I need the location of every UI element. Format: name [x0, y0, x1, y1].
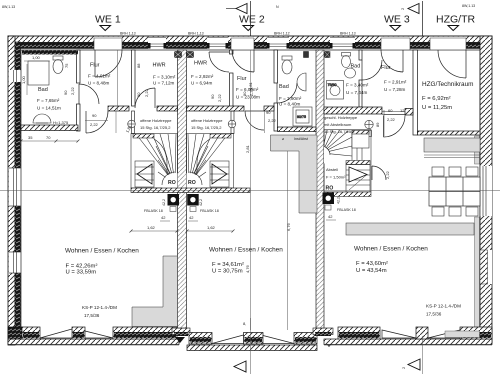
wall Bad1/Flur1: [77, 50, 81, 131]
door Bad3: [362, 60, 382, 80]
svg-text:89: 89: [375, 122, 380, 127]
Bad2 toilet: [282, 56, 292, 74]
svg-text:60: 60: [388, 108, 393, 113]
svg-text:42: 42: [328, 214, 333, 219]
svg-text:Wohnen / Essen / Kochen: Wohnen / Essen / Kochen: [65, 248, 139, 255]
svg-text:U = 6,94m: U = 6,94m: [191, 81, 212, 86]
Bad2 sink: [297, 73, 306, 91]
Bad3 sink: [345, 68, 356, 78]
svg-text:8W,1.13: 8W,1.13: [462, 4, 475, 8]
Bad3 toilet: [342, 53, 351, 68]
WE3 hall wall right block: [405, 109, 413, 116]
svg-text:90: 90: [136, 92, 141, 97]
window HWR1: [148, 37, 166, 50]
svg-text:WE 3: WE 3: [384, 14, 410, 26]
svg-text:U = 8,40m: U = 8,40m: [279, 102, 300, 107]
column WE1: [128, 120, 136, 128]
Bad2 bottom wall: [278, 127, 317, 132]
svg-text:75: 75: [64, 63, 69, 68]
svg-text:2,22: 2,22: [90, 122, 99, 127]
label WE 3: [384, 14, 410, 31]
svg-text:N: N: [276, 5, 279, 9]
svg-text:1,62: 1,62: [207, 225, 216, 230]
svg-text:F = 34,61m²: F = 34,61m²: [212, 262, 244, 268]
svg-text:42: 42: [161, 215, 166, 220]
door Flur3 living: [384, 116, 406, 138]
horizontal chain line: [0, 190, 500, 192]
svg-text:1,81: 1,81: [248, 81, 253, 90]
window Bad WE2: [267, 37, 289, 50]
svg-text:F = 3,40m²: F = 3,40m²: [346, 83, 369, 88]
WE3 counter top: [424, 138, 480, 152]
svg-text:2,22: 2,22: [385, 170, 390, 179]
Bad1 sink: [33, 114, 51, 123]
WE1 kitchen L: [132, 256, 178, 327]
svg-text:U = 8,48m: U = 8,48m: [88, 81, 109, 86]
svg-text:U = 43,54m: U = 43,54m: [356, 268, 387, 274]
Bad1 shower: [28, 61, 49, 85]
wall Flur3/HZG: [413, 50, 418, 135]
svg-text:12: 12: [400, 108, 405, 113]
svg-text:8,: 8,: [243, 321, 246, 326]
svg-text:17,5/36: 17,5/36: [426, 312, 442, 317]
svg-text:F = 2,92m²: F = 2,92m²: [191, 74, 214, 79]
washer Bad2: [304, 52, 309, 58]
svg-text:1,62: 1,62: [147, 225, 156, 230]
svg-text:KS-P 12-1.4-/DM: KS-P 12-1.4-/DM: [82, 305, 117, 310]
wall Bad3/Flur3: [359, 50, 362, 107]
svg-text:HZG/TR: HZG/TR: [436, 14, 475, 26]
svg-text:BRH 1,13: BRH 1,13: [340, 32, 356, 36]
svg-text:Flur: Flur: [237, 76, 247, 82]
door WE1 living: [86, 111, 108, 133]
washer HWR1: [175, 52, 182, 58]
hall wall WE2 segment: [187, 106, 245, 111]
svg-text:Abstell: Abstell: [326, 167, 338, 172]
hall wall HWR1 segment: [157, 106, 178, 111]
Bad2 shower: [293, 107, 312, 126]
WE3 dining chairs bottom: [432, 207, 478, 216]
svg-text:BRH 1,13: BRH 1,13: [188, 32, 204, 36]
column WE3 hall: [365, 120, 373, 136]
wall stub below column WE2: [231, 111, 234, 134]
stair WE3: [312, 130, 371, 197]
svg-text:Bad: Bad: [38, 87, 48, 93]
svg-text:U = 11,25m: U = 11,25m: [422, 105, 452, 111]
svg-text:U = 7,28m: U = 7,28m: [384, 87, 405, 92]
HZG bottom wall: [418, 131, 481, 135]
door Abstell WE3: [372, 166, 386, 180]
svg-text:90: 90: [63, 90, 68, 95]
Bad3 shower: [327, 81, 344, 100]
svg-text:8W,1.13: 8W,1.13: [2, 5, 15, 9]
svg-text:U = 7,44m: U = 7,44m: [346, 90, 367, 95]
svg-text:4,76: 4,76: [245, 264, 250, 273]
svg-text:F = 7,65m²: F = 7,65m²: [37, 98, 60, 103]
svg-text:FBLASK 18: FBLASK 18: [200, 209, 219, 213]
svg-text:BRH 1,13: BRH 1,13: [120, 32, 136, 36]
svg-text:90/75: 90/75: [297, 115, 306, 119]
svg-text:BRH 1,12: BRH 1,12: [274, 32, 290, 36]
svg-text:2,22: 2,22: [70, 86, 75, 95]
Bad1 bottom wall: [21, 125, 78, 131]
party threshold 2: [313, 328, 334, 347]
svg-text:1,00: 1,00: [32, 55, 41, 60]
svg-text:6,76: 6,76: [286, 222, 291, 231]
svg-text:RO: RO: [326, 186, 334, 192]
Bad1 toilet: [53, 56, 63, 74]
svg-text:U = 30,75m: U = 30,75m: [212, 269, 243, 275]
svg-text:Wohnen / Essen / Kochen: Wohnen / Essen / Kochen: [354, 246, 428, 253]
column WE2: [228, 120, 236, 128]
WE3 counter long: [346, 223, 474, 235]
WE3 dining table: [429, 177, 480, 206]
svg-text:RO: RO: [168, 180, 176, 186]
svg-text:FBLASK 18: FBLASK 18: [144, 209, 163, 213]
svg-text:RO: RO: [188, 180, 196, 186]
svg-text:U = 7,12m: U = 7,12m: [153, 81, 174, 86]
gray strip along bottom right: [445, 331, 480, 338]
door HWR2: [209, 52, 229, 72]
stair WE2: [176, 134, 234, 200]
svg-text:35: 35: [28, 135, 33, 140]
label HZG/TR: [436, 14, 475, 31]
section bottom markers: [234, 321, 420, 372]
svg-text:2,22: 2,22: [144, 88, 149, 97]
section marker 2 top: [400, 1, 423, 36]
dim ticks: [20, 140, 235, 233]
stair landing strip: [131, 188, 250, 193]
top wall outer hatch band: [8, 36, 492, 43]
label WE 1: [95, 14, 121, 31]
svg-text:geschl. Holztreppe: geschl. Holztreppe: [324, 115, 358, 120]
svg-text:WE 1: WE 1: [95, 14, 121, 26]
chimney block WE2: [187, 194, 199, 212]
door WE2 living: [245, 111, 264, 130]
svg-text:HWR: HWR: [153, 63, 166, 69]
svg-text:Flur: Flur: [381, 65, 391, 71]
chimney block WE1: [168, 194, 180, 212]
svg-text:U = 33,59m: U = 33,59m: [66, 270, 97, 276]
svg-text:90: 90: [266, 110, 271, 115]
svg-text:KS-P 12-1.4-/DM: KS-P 12-1.4-/DM: [426, 304, 461, 309]
chimney block WE3: [323, 193, 335, 211]
svg-text:F = 3,10m²: F = 3,10m²: [153, 75, 176, 80]
label WE 2: [239, 14, 265, 31]
svg-text:F = 2,91m²: F = 2,91m²: [384, 80, 407, 85]
svg-text:42,2: 42,2: [162, 199, 166, 206]
svg-text:F = 4,01m²: F = 4,01m²: [88, 74, 111, 79]
door WE2 entry: [232, 50, 254, 72]
svg-text:Bad: Bad: [351, 64, 361, 70]
svg-text:88: 88: [136, 63, 141, 68]
svg-text:15 Stg. 16,7/25,2: 15 Stg. 16,7/25,2: [140, 125, 171, 130]
svg-text:42,2: 42,2: [199, 199, 203, 206]
party threshold 1: [172, 328, 190, 343]
svg-text:F = 1,50m²: F = 1,50m²: [326, 175, 346, 180]
BRH labels: [120, 32, 356, 36]
door lintel lines: [94, 37, 466, 50]
wall stub below column WE1: [132, 111, 135, 134]
wall HWR2/Flur2: [230, 50, 234, 107]
svg-text:1,00: 1,00: [21, 75, 26, 84]
top wall dark core segments: [8, 43, 492, 49]
WE3 hall door lintel: [382, 112, 405, 115]
door Bad1: [79, 84, 99, 104]
Abstell: [325, 164, 345, 180]
door Bad2: [277, 83, 297, 103]
section marker 8 top: [226, 1, 251, 36]
svg-text:F = 43,60m²: F = 43,60m²: [356, 261, 388, 267]
window Bad WE3: [330, 37, 355, 50]
washer HWR2: [187, 52, 194, 58]
door WE3 entry: [381, 50, 403, 72]
svg-text:42,2: 42,2: [337, 197, 341, 204]
svg-text:2,22: 2,22: [387, 117, 396, 122]
hall wall WE1 segment: [108, 106, 129, 111]
svg-text:FBLASK 18: FBLASK 18: [337, 208, 356, 212]
door HZG entry: [438, 50, 466, 78]
washer Bad3: [325, 52, 331, 58]
svg-text:75/90: 75/90: [328, 83, 337, 87]
svg-text:U = 14,51m: U = 14,51m: [37, 106, 61, 111]
svg-text:Inst/Abst: Inst/Abst: [294, 137, 308, 141]
door HWR1: [135, 88, 155, 108]
svg-text:2,81: 2,81: [245, 144, 250, 153]
door WE1 entry: [95, 50, 122, 77]
Bad1 inner band: [22, 51, 78, 55]
svg-text:Wohnen / Essen / Kochen: Wohnen / Essen / Kochen: [209, 247, 283, 254]
svg-text:H=1,375: H=1,375: [53, 120, 69, 125]
svg-text:F = 3,90m²: F = 3,90m²: [279, 96, 302, 101]
svg-text:90: 90: [92, 113, 97, 118]
svg-text:HZG/Technikraum: HZG/Technikraum: [422, 81, 474, 88]
svg-text:90: 90: [242, 91, 247, 96]
wall Flur1/HWR1: [132, 50, 136, 106]
svg-text:42: 42: [189, 215, 194, 220]
WE2 shaft L: [271, 135, 318, 213]
hall wall WE2 right segment: [264, 106, 274, 111]
svg-text:HWR: HWR: [194, 61, 207, 67]
WE3 dining chairs top: [432, 167, 478, 176]
svg-text:2,22: 2,22: [217, 93, 222, 102]
svg-text:offene Holztreppe: offene Holztreppe: [191, 118, 223, 123]
svg-text:Bad: Bad: [279, 84, 289, 90]
svg-text:Flur: Flur: [90, 63, 100, 69]
svg-text:15 Stg. 16,7/25,2: 15 Stg. 16,7/25,2: [324, 129, 355, 134]
svg-text:17,5/36: 17,5/36: [84, 313, 100, 318]
svg-text:WE 2: WE 2: [239, 14, 265, 26]
svg-text:2,22: 2,22: [268, 118, 277, 123]
window HWR2: [207, 37, 228, 50]
rotated dims: [21, 55, 405, 273]
svg-text:offene Holztreppe: offene Holztreppe: [140, 118, 172, 123]
top wall inner face line: [8, 49, 492, 51]
svg-text:15 Stg. 16,7/25,2: 15 Stg. 16,7/25,2: [191, 125, 222, 130]
svg-text:90: 90: [210, 94, 215, 99]
svg-text:70: 70: [46, 135, 51, 140]
wall Flur2/Bad2: [274, 50, 278, 131]
Bad3 bottom wall: [324, 107, 382, 114]
svg-text:F = 6,92m²: F = 6,92m²: [422, 96, 451, 102]
svg-text:mit Abstellraum: mit Abstellraum: [324, 122, 352, 127]
